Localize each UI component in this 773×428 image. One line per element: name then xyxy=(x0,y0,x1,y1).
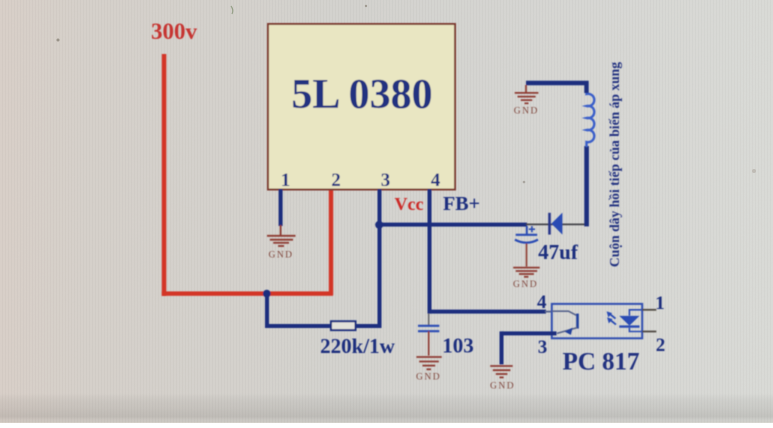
svg-text:4: 4 xyxy=(537,292,547,313)
svg-text:GND: GND xyxy=(268,251,293,261)
IC U1 5L0380 body xyxy=(268,24,455,190)
diode D1 cathode bar xyxy=(548,213,551,235)
PC817 pin 1 wire (thin dark) xyxy=(642,309,656,311)
svg-text:1: 1 xyxy=(655,293,665,314)
PC817 phototransistor collector line xyxy=(552,311,576,315)
PC817 light arrow 2 xyxy=(607,317,616,324)
ground under pin 1 xyxy=(267,225,296,246)
wire node A to resistor R1 xyxy=(265,324,331,328)
capacitor C2 plates xyxy=(418,326,439,331)
svg-text:1: 1 xyxy=(281,170,291,191)
PC817 LED cathode bar xyxy=(619,325,639,327)
svg-text:GND: GND xyxy=(514,107,539,117)
optocoupler U2 PC817 body xyxy=(552,304,642,338)
wire 300v to pin-2 horizontal (red) xyxy=(162,291,333,295)
ground under C2 xyxy=(416,357,441,369)
svg-text:2: 2 xyxy=(656,335,666,356)
svg-text:GND: GND xyxy=(513,280,538,290)
svg-text:47uf: 47uf xyxy=(538,240,579,264)
inductor L1 coil xyxy=(587,92,595,147)
svg-text:2: 2 xyxy=(331,170,341,191)
PC817 pin 3 wire (thick navy) xyxy=(502,331,557,335)
wire FB+ horizontal (thick navy) xyxy=(379,223,527,227)
svg-text:GND: GND xyxy=(416,373,441,383)
svg-text:220k/1w: 220k/1w xyxy=(320,334,396,358)
ground under PC817 pin 3 xyxy=(490,366,513,377)
PC817 LED triangle xyxy=(619,316,639,326)
svg-text:3: 3 xyxy=(538,337,548,358)
wire 300v vertical (red) xyxy=(162,54,167,296)
svg-text:3: 3 xyxy=(381,170,391,191)
pin 4 wire vertical (to optocoupler) xyxy=(428,189,432,314)
PC817 phototransistor bar xyxy=(576,314,579,329)
capacitor C1 plates xyxy=(516,234,538,236)
wire coil top corner xyxy=(526,83,587,93)
capacitor C2 lower stem xyxy=(428,331,430,355)
pin 3 wire / Vcc net vertical xyxy=(378,189,382,326)
PC817 phototransistor emitter + arrow xyxy=(557,328,577,334)
PC817 light arrow 1 xyxy=(607,311,616,318)
svg-text:Vcc: Vcc xyxy=(395,194,424,214)
svg-text:103: 103 xyxy=(442,334,474,358)
svg-text:Cuộn dây hồi tiếp của biến áp: Cuộn dây hồi tiếp của biến áp xung xyxy=(607,62,622,267)
svg-text:GND: GND xyxy=(490,382,515,392)
wire node A down (navy) xyxy=(265,294,269,328)
ground (coil top) xyxy=(515,85,539,103)
wire pin 4 corner to optocoupler pin 4 xyxy=(428,310,547,314)
PC817 LED cathode stem xyxy=(629,328,642,332)
junction node A (dot) xyxy=(263,290,271,298)
dust specks xyxy=(57,39,60,42)
PC817 LED anode path xyxy=(629,310,642,316)
wire coil vertical (thick navy) xyxy=(584,146,589,226)
svg-text:300v: 300v xyxy=(151,19,198,44)
svg-text:PC 817: PC 817 xyxy=(562,349,639,376)
resistor R1 220k/1w xyxy=(331,321,356,330)
PC817 pin 3 drop to ground xyxy=(500,331,504,364)
node dot Vcc/FB junction xyxy=(375,221,383,229)
svg-text:5L 0380: 5L 0380 xyxy=(291,72,432,118)
capacitor C1 47uf stem + plus xyxy=(526,226,528,235)
svg-text:4: 4 xyxy=(431,170,441,191)
wire pin 2 vertical (red) xyxy=(329,189,333,295)
wire resistor R1 to Vcc node xyxy=(356,324,382,328)
wire FB+ to diode (thin dark) xyxy=(526,223,586,225)
diode D1 triangle xyxy=(551,213,562,235)
capacitor C1 lower stem xyxy=(526,244,528,267)
svg-text:FB+: FB+ xyxy=(443,193,480,215)
capacitor C2 103 stem xyxy=(428,314,430,325)
PC817 pin 2 wire (thin dark) xyxy=(642,331,656,333)
pin 1 wire xyxy=(279,189,283,226)
ground under C1 xyxy=(513,268,540,277)
